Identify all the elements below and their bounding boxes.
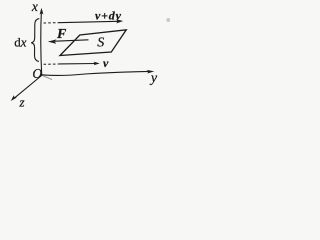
force F arrow (55, 40, 89, 41)
faint scan smudge (167, 18, 171, 22)
dashed leader to upper layer (44, 22, 59, 24)
svg-text:y: y (149, 71, 158, 86)
z axis (down-left) (14, 75, 43, 99)
svg-text:v+dv: v+dv (95, 9, 122, 23)
svg-text:x: x (31, 0, 38, 14)
svg-text:dx: dx (14, 35, 27, 50)
x axis arrowhead (40, 8, 44, 15)
z axis arrowhead (11, 95, 17, 101)
svg-text:S: S (97, 35, 104, 50)
y axis arrowhead (147, 70, 155, 74)
plate S parallelogram (60, 30, 126, 56)
v arrow (60, 63, 97, 65)
stray stroke near origin (43, 76, 53, 80)
brace for dx (31, 19, 39, 62)
dashed leader to lower layer velocity (44, 63, 60, 65)
paper background (0, 0, 170, 107)
svg-text:O: O (32, 66, 42, 81)
x axis (vertical) (40, 10, 43, 75)
y axis (horizontal) (42, 71, 151, 75)
svg-text:z: z (19, 94, 25, 107)
svg-text:F: F (56, 27, 67, 42)
svg-text:v: v (103, 56, 109, 70)
v+dv arrow (58, 21, 118, 22)
